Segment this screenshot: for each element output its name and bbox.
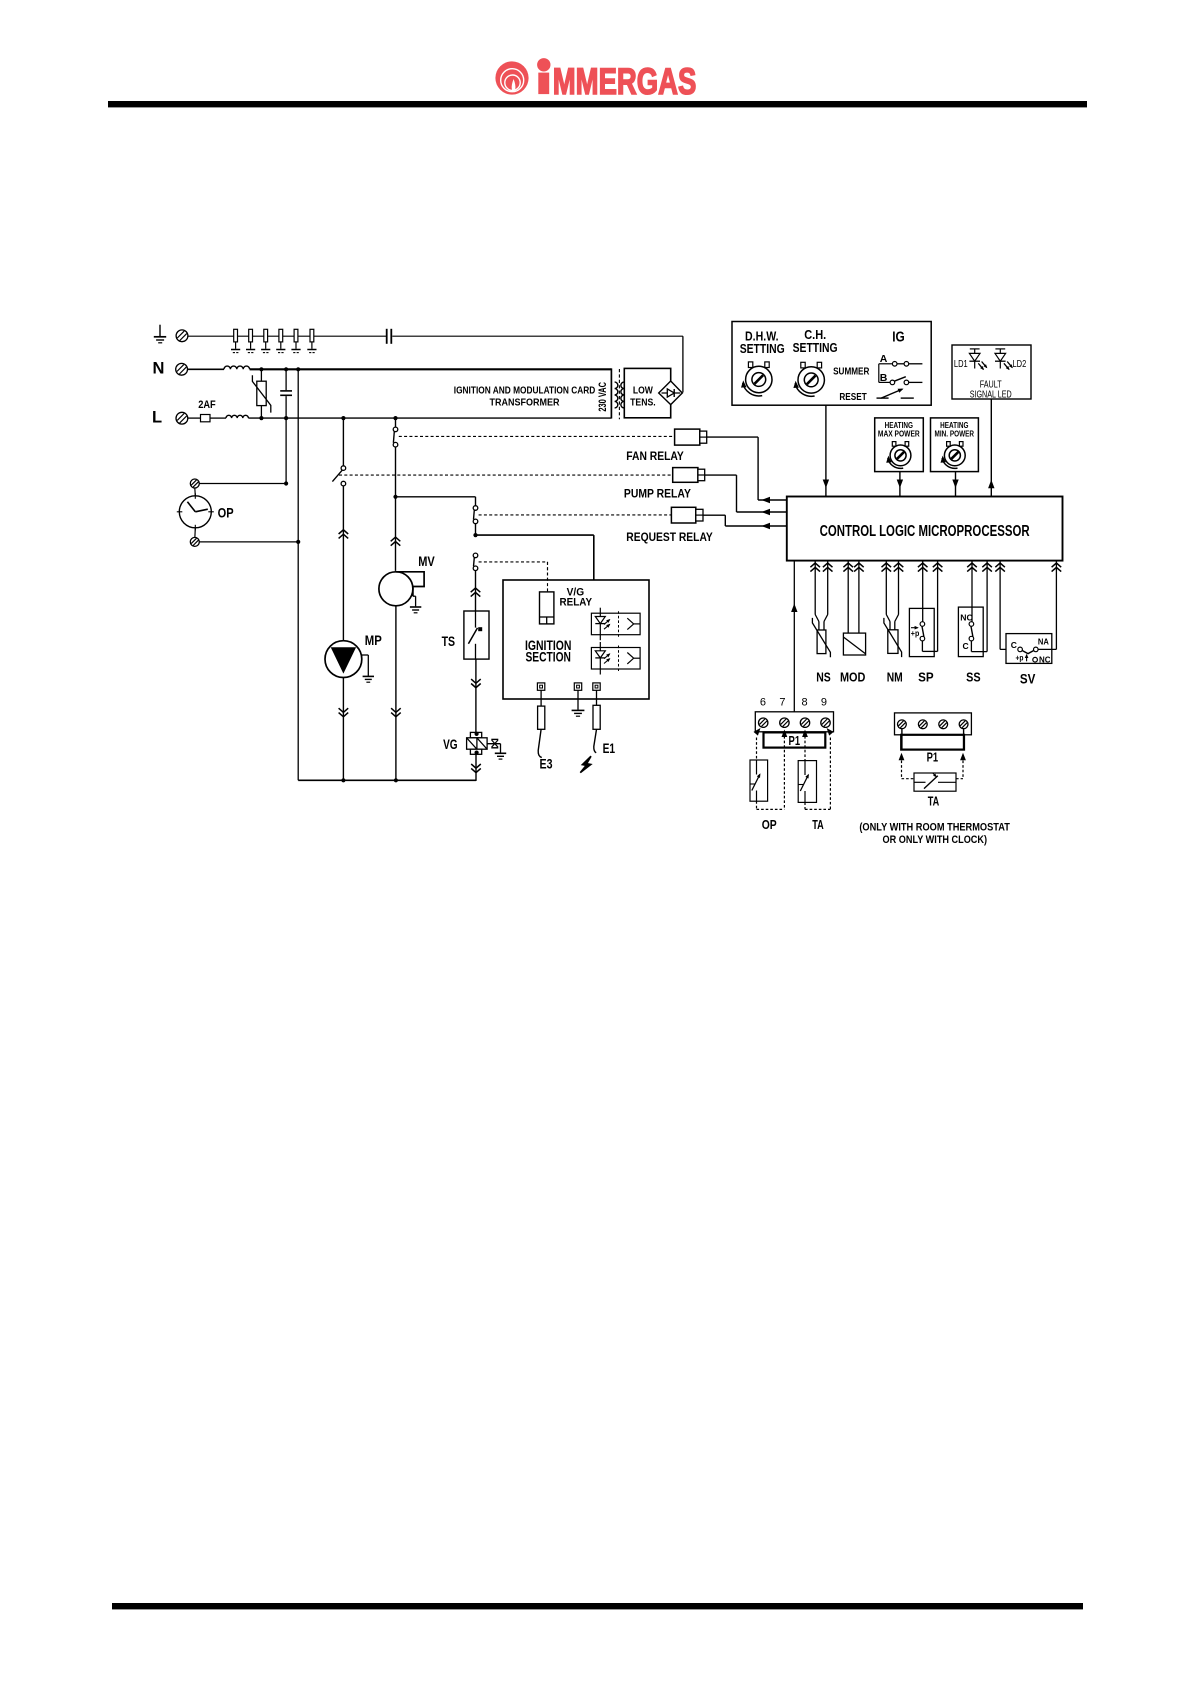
label 230 VAC <box>597 382 609 412</box>
potentiometer heating min <box>941 442 966 469</box>
dashed link screw8 <box>802 730 808 810</box>
svg-text:PUMP RELAY: PUMP RELAY <box>624 487 691 501</box>
label IG <box>892 330 905 346</box>
terminal screw OP-top <box>190 479 199 488</box>
terminal screw PE <box>176 330 188 342</box>
fault signal LED box <box>952 345 1031 399</box>
terminal screw R3 <box>939 720 948 729</box>
LED LD2 <box>995 349 1013 370</box>
wire min pot to microprocessor <box>952 472 958 497</box>
node N-return junction <box>296 367 300 371</box>
wire L to clock OP <box>285 418 287 483</box>
label LD1 <box>954 359 968 370</box>
relay coil FAN <box>675 429 787 503</box>
ignition ground <box>572 690 585 716</box>
safety valve switch SV <box>1000 561 1056 665</box>
switch VG relay contact <box>473 553 478 570</box>
svg-text:SV: SV <box>1020 670 1036 686</box>
thermistor NS <box>812 561 830 658</box>
label TA contact <box>812 817 824 832</box>
node L-MP branch junction <box>341 416 345 420</box>
node L-MV branch junction <box>393 416 397 420</box>
dashed link TA left <box>899 753 914 779</box>
wire dashed VG relay link <box>479 562 548 592</box>
svg-text:L: L <box>152 409 162 427</box>
label RESET <box>839 392 866 403</box>
bottom rule <box>112 1603 1083 1609</box>
node N-varistor junction <box>259 367 263 371</box>
wire tap to TS branch <box>396 496 476 498</box>
ignition section box <box>503 580 649 699</box>
svg-text:SETTING: SETTING <box>793 340 838 355</box>
svg-text:C: C <box>963 641 969 651</box>
label OP clock <box>218 504 234 520</box>
gas valve VG <box>467 732 488 755</box>
svg-text:SETTING: SETTING <box>740 341 785 356</box>
label E1 <box>603 740 616 756</box>
label TA right <box>928 793 940 808</box>
potentiometer CH setting <box>793 362 824 396</box>
svg-text:RESET: RESET <box>839 392 866 403</box>
heating max power box <box>875 418 924 472</box>
valve vent and ground <box>487 739 506 759</box>
terminal screw OP-bottom <box>190 537 199 546</box>
dashed link screw6 OP <box>754 728 761 760</box>
svg-text:REQUEST RELAY: REQUEST RELAY <box>626 530 713 544</box>
terminal screw L <box>176 412 188 424</box>
feed-through filter capacitor C4 <box>276 329 285 352</box>
svg-text:CONTROL LOGIC MICROPROCESSOR: CONTROL LOGIC MICROPROCESSOR <box>820 523 1030 540</box>
label MV <box>418 553 435 569</box>
potentiometer DHW setting <box>741 362 772 396</box>
label NS <box>816 669 831 684</box>
svg-text:N: N <box>153 359 165 377</box>
node L-capacitor junction <box>284 416 288 420</box>
svg-text:230 VAC: 230 VAC <box>597 382 609 412</box>
label E3 <box>540 756 553 772</box>
terminal screw 7 <box>780 718 789 727</box>
potentiometer heating max <box>886 442 911 469</box>
switch MV relay contact <box>393 427 398 447</box>
label NM <box>887 669 903 684</box>
terminal screw N <box>176 363 188 375</box>
wire dashed fan relay link <box>399 435 675 437</box>
wire N return to bus <box>297 369 299 780</box>
inductor filter choke N <box>188 366 250 369</box>
wire ignition power <box>476 535 594 580</box>
electrode E3 <box>538 690 545 757</box>
svg-text:NA: NA <box>1038 636 1049 646</box>
fuse 2AF label <box>198 399 216 411</box>
svg-text:LOW: LOW <box>633 384 653 396</box>
label FAULT SIGNAL LED <box>970 379 1012 400</box>
node L-varistor junction <box>259 416 263 420</box>
wire max pot to microprocessor <box>897 472 903 497</box>
svg-text:IG: IG <box>892 330 905 346</box>
earth symbol PE <box>154 325 166 343</box>
label REQUEST RELAY <box>626 530 713 544</box>
label SUMMER <box>833 367 870 378</box>
svg-text:OP: OP <box>218 504 234 520</box>
svg-text:P1: P1 <box>789 734 801 748</box>
label CH SETTING <box>793 327 838 355</box>
svg-text:9: 9 <box>821 697 827 709</box>
svg-text:SIGNAL LED: SIGNAL LED <box>970 389 1012 400</box>
label P1 right <box>927 751 939 765</box>
label V/G RELAY <box>560 587 593 609</box>
transformer core dashed <box>618 369 620 419</box>
transformer secondary winding <box>621 382 624 408</box>
svg-text:E3: E3 <box>540 756 553 772</box>
label PUMP RELAY <box>624 487 691 501</box>
wire L rail <box>248 417 611 419</box>
feed-through filter capacitor C1 <box>231 329 240 352</box>
spark symbol <box>580 756 591 772</box>
svg-text:SP: SP <box>918 670 934 685</box>
svg-text:SUMMER: SUMMER <box>833 367 870 378</box>
svg-text:MAX POWER: MAX POWER <box>878 428 920 438</box>
terminal screw 9 <box>821 718 830 727</box>
wire earth rail <box>188 335 683 337</box>
svg-text:NC: NC <box>1039 654 1051 664</box>
label SS <box>966 670 981 685</box>
svg-text:FAN RELAY: FAN RELAY <box>626 449 684 463</box>
wire VG to bus <box>471 754 481 781</box>
svg-text:IGNITION AND MODULATION CARD: IGNITION AND MODULATION CARD <box>454 384 596 396</box>
ignition terminal gnd pad <box>574 683 581 690</box>
label TS <box>442 633 456 649</box>
terminal strip 6-9 <box>755 712 833 732</box>
capacitor across N-L <box>280 369 292 418</box>
wire pin to terminal strip <box>791 561 797 712</box>
dashed link screw7 <box>782 730 788 810</box>
wire MV switch down <box>391 447 401 571</box>
switch reset <box>877 389 914 399</box>
wire L to MV switch <box>395 418 397 427</box>
varistor across N-L <box>252 369 270 418</box>
caption only with room thermostat <box>859 821 1010 846</box>
svg-text:OP: OP <box>762 817 777 832</box>
svg-text:(ONLY WITH ROOM THERMOSTAT: (ONLY WITH ROOM THERMOSTAT <box>859 821 1010 833</box>
svg-text:2AF: 2AF <box>198 399 216 411</box>
wire switch to node <box>475 524 477 535</box>
inductor filter choke L <box>210 415 248 418</box>
svg-text:MMERGAS: MMERGAS <box>553 60 697 102</box>
svg-text:LD2: LD2 <box>1013 359 1027 370</box>
wire MV to bus <box>391 606 401 781</box>
wire dashed pump relay link <box>339 474 673 476</box>
wire LED to microprocessor <box>988 399 994 497</box>
label SP <box>918 670 934 685</box>
thermostat contact TA box <box>798 761 816 803</box>
top rule <box>108 101 1087 107</box>
wire L to MP switch <box>342 418 344 466</box>
svg-text:TA: TA <box>928 793 940 808</box>
clock timer OP <box>177 488 214 539</box>
svg-text:E1: E1 <box>603 740 616 756</box>
svg-text:MP: MP <box>365 632 382 648</box>
dashed link screw9 TA <box>827 728 834 809</box>
switch MP relay contact <box>332 466 345 486</box>
svg-text:+p: +p <box>911 628 920 638</box>
wire MP to bus <box>339 678 349 781</box>
terminal screw 8 <box>800 718 809 727</box>
label OP contact <box>762 817 777 832</box>
terminal screw R1 <box>898 720 907 729</box>
node MV-TS tap junction <box>393 495 397 499</box>
wire TS to VG <box>471 659 481 732</box>
wire MP switch to pump <box>339 486 349 641</box>
label MOD <box>840 669 866 684</box>
node N label <box>153 359 165 377</box>
node L label <box>152 409 162 427</box>
terminal numbers 6 7 8 9 <box>760 697 827 709</box>
microprocessor pin chevrons <box>810 563 1061 572</box>
svg-text:NS: NS <box>816 669 831 684</box>
label LD2 <box>1013 359 1027 370</box>
terminal screw 6 <box>759 718 768 727</box>
node N-capacitor junction <box>284 367 288 371</box>
Immergas logo wordmark iMMERGAS <box>537 58 696 102</box>
svg-text:8: 8 <box>801 697 807 709</box>
relay V/G <box>540 562 554 624</box>
label DHW SETTING <box>740 329 785 356</box>
ground at MP <box>361 655 374 682</box>
svg-text:SS: SS <box>966 670 981 685</box>
wire OP-bottom to node <box>199 540 300 544</box>
label contact A <box>880 353 888 365</box>
svg-text:C: C <box>1011 640 1017 650</box>
switch summer A <box>879 362 923 383</box>
svg-text:TS: TS <box>442 633 456 649</box>
svg-text:TRANSFORMER: TRANSFORMER <box>490 397 560 409</box>
svg-text:6: 6 <box>760 697 766 709</box>
thermistor NM <box>884 561 902 658</box>
terminal strip room thermostat <box>895 713 972 735</box>
terminal screw R2 <box>918 720 927 729</box>
optocoupler 1 <box>591 608 640 641</box>
wire earth to bridge <box>682 336 684 392</box>
jumper P1 left <box>764 732 826 748</box>
wire to TS <box>471 571 481 611</box>
svg-text:OR ONLY WITH CLOCK): OR ONLY WITH CLOCK) <box>883 834 988 846</box>
svg-text:MV: MV <box>418 553 435 569</box>
ground at MV <box>410 596 421 613</box>
ignition terminal E1 pad <box>593 683 600 690</box>
svg-text:P1: P1 <box>927 751 939 765</box>
wire TS branch upper <box>475 497 477 506</box>
jumper P1 right <box>901 729 964 750</box>
pump MP <box>325 641 362 678</box>
wire N rail <box>250 368 612 370</box>
svg-text:SECTION: SECTION <box>525 650 571 665</box>
svg-text:NC: NC <box>960 614 973 623</box>
optocoupler 2 <box>591 642 640 675</box>
label VG <box>443 736 458 752</box>
switch request relay contact <box>473 506 478 524</box>
label IGNITION SECTION <box>525 638 572 665</box>
bridge rectifier <box>659 381 683 405</box>
svg-text:TA: TA <box>812 817 824 832</box>
Immergas logo emblem (red circle with flame) <box>495 61 528 94</box>
label contact B <box>880 372 888 384</box>
transformer primary winding <box>615 382 618 408</box>
fuse 2AF <box>188 415 210 422</box>
dashed OP box to link <box>756 801 758 809</box>
svg-text:MIN. POWER: MIN. POWER <box>935 428 975 438</box>
pressure switch SP <box>909 561 937 657</box>
label SV <box>1020 670 1036 686</box>
svg-text:TENS.: TENS. <box>630 396 656 408</box>
transformer primary box edge <box>610 368 612 418</box>
svg-text:VG: VG <box>443 736 458 752</box>
dashed bottom links <box>757 808 831 810</box>
switch summer B <box>890 377 922 385</box>
label ignition and modulation card transformer <box>454 384 596 408</box>
ignition terminal E3 pad <box>537 683 544 690</box>
wire neutral bus <box>298 778 476 782</box>
svg-text:MOD: MOD <box>840 669 866 684</box>
feed-through filter capacitor C2 <box>246 329 255 352</box>
feed-through filter capacitor C5 <box>291 329 300 352</box>
wire dashed request relay link <box>479 514 672 516</box>
label FAN RELAY <box>626 449 684 463</box>
svg-text:LD1: LD1 <box>954 359 968 370</box>
relay coil REQUEST <box>671 507 786 529</box>
thermostat TS <box>464 611 489 659</box>
heating min power box <box>931 418 979 472</box>
settings box IG <box>732 322 931 406</box>
control logic microprocessor U1 <box>787 497 1063 561</box>
label MP <box>365 632 382 648</box>
svg-text:7: 7 <box>779 697 785 709</box>
series capacitor on earth line <box>386 329 392 344</box>
clock contact OP box <box>750 760 768 801</box>
LED LD1 <box>969 349 987 370</box>
electrode E1 <box>593 690 600 753</box>
svg-text:NM: NM <box>887 669 903 684</box>
fan MV <box>379 572 424 606</box>
wire OP-top to node <box>199 481 288 485</box>
relay coil PUMP <box>673 468 787 516</box>
room thermostat TA box <box>914 773 956 791</box>
modulator MOD <box>843 561 865 655</box>
svg-text:+p: +p <box>1016 654 1024 663</box>
safety stat SS <box>958 561 987 657</box>
feed-through filter capacitor C3 <box>261 329 270 352</box>
svg-text:RELAY: RELAY <box>560 597 593 609</box>
terminal screw R4 <box>959 720 968 729</box>
feed-through filter capacitor C6 <box>307 329 316 352</box>
dashed link TA right <box>956 753 966 779</box>
wire IG to microprocessor <box>823 405 829 497</box>
node ignition power tap <box>473 533 477 537</box>
low tension box <box>624 368 670 417</box>
